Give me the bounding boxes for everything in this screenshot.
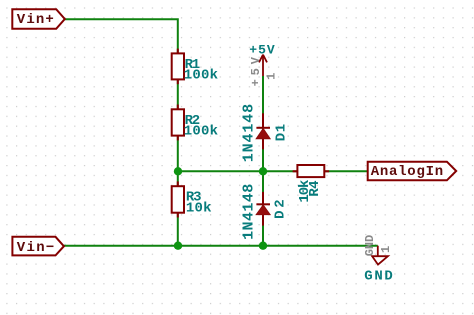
svg-text:Vin−: Vin− — [17, 240, 55, 256]
svg-text:100k: 100k — [184, 68, 218, 84]
svg-text:1: 1 — [379, 246, 393, 253]
svg-text:+5V: +5V — [249, 43, 275, 58]
svg-text:10k: 10k — [186, 201, 212, 217]
svg-text:Vin+: Vin+ — [17, 12, 54, 28]
svg-text:AnalogIn: AnalogIn — [371, 164, 443, 180]
svg-text:GND: GND — [364, 269, 393, 285]
svg-text:100k: 100k — [184, 124, 218, 140]
svg-text:+5V: +5V — [249, 56, 263, 86]
svg-text:D1: D1 — [273, 124, 289, 142]
svg-text:R4: R4 — [307, 180, 323, 196]
svg-text:1: 1 — [265, 73, 279, 80]
svg-text:1N4148: 1N4148 — [240, 104, 257, 163]
svg-text:1N4148: 1N4148 — [240, 184, 257, 240]
svg-text:GND: GND — [363, 235, 377, 257]
